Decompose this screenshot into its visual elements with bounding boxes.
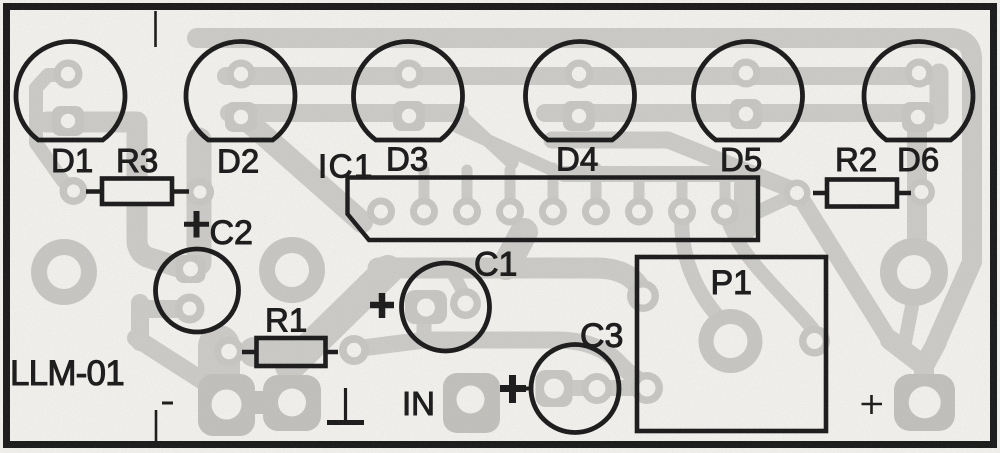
holes C2 — [183, 262, 198, 277]
wire diagonal stubs between D3 and D4 — [457, 112, 553, 170]
wire third bus trace right part — [545, 104, 924, 122]
wire IC1 right end to R2 left pad — [751, 195, 794, 215]
LED D4 — [526, 42, 635, 140]
tick mark top — [154, 11, 157, 47]
wire gray fill left part of R1 body — [254, 337, 300, 367]
holes LED pads — [61, 67, 75, 81]
holes large pads bottom — [212, 390, 242, 420]
wire C2 minus pad to bottom-left pads — [136, 303, 206, 383]
tick mark bottom — [155, 410, 158, 444]
plus sign bottom right — [862, 395, 883, 414]
capacitor C2 — [156, 249, 239, 332]
pad D3 lower square — [393, 101, 425, 131]
wire junction Y into bottom-right pad — [890, 340, 937, 378]
wire C3 plus lead — [526, 387, 533, 391]
potentiometer P1 outline — [637, 257, 826, 431]
wire curve IC1 to P1 right ring — [727, 218, 812, 328]
LED D6 — [864, 42, 973, 140]
wire D1 lower pad trace with elbow behind R3 — [47, 122, 191, 271]
pad C2 minus ring — [175, 294, 205, 324]
pad R3 left ring — [60, 177, 88, 205]
pad D5 lower square — [730, 99, 762, 129]
pad D2 upper ring — [227, 60, 256, 89]
wire curve IC1 to P1 center ring — [682, 216, 727, 326]
via big ring right — [880, 238, 948, 306]
wire C1 plus pad tail to mid trace — [454, 276, 466, 301]
wire third bus trace through LED lower pads — [229, 104, 460, 122]
capacitor C3 — [531, 345, 619, 433]
pad P1 center big ring — [699, 309, 763, 373]
wire right ring tail to junction — [905, 306, 912, 342]
wire diagonal from mid trace through R1 body — [290, 270, 388, 366]
pad D2 lower square — [225, 102, 257, 132]
wire C1 left pad stub down — [417, 318, 432, 337]
pad D1 upper ring — [54, 60, 83, 89]
op-amp IC1 outline — [348, 178, 759, 241]
wire diagonal R2 left pad to bottom right junction — [799, 195, 890, 341]
resistor R3 — [102, 179, 172, 205]
wire D6 lower pad down to big right ring — [907, 119, 927, 243]
holes P1 — [635, 288, 652, 305]
wire second bus trace through LED upper pads — [226, 67, 939, 85]
wire vertical from D2 lower pad to C2 plus pad — [187, 140, 212, 263]
LED D2 — [186, 42, 295, 140]
pad R1 left ring — [214, 337, 244, 367]
holes R1 — [221, 344, 237, 360]
wire D6 internal link band2 to lower pad — [930, 73, 949, 115]
pad P1 lower-left ring — [631, 372, 663, 404]
wire C3 pad row bridge — [552, 380, 646, 396]
pad R1 right ring — [339, 335, 369, 365]
pad P1 right ring — [799, 326, 830, 357]
pad bottom-right plus large — [894, 374, 955, 431]
pad bottom-left minus large — [198, 374, 255, 436]
wire top bus trace — [197, 38, 972, 343]
pad C1 left square — [405, 290, 447, 324]
ground symbol — [344, 388, 347, 421]
wire mid trace from R1 area to P1 upper pad — [378, 268, 645, 295]
pad C2 plus square — [176, 255, 206, 283]
LED D3 — [354, 42, 463, 140]
wire blob around R1 left pad — [198, 346, 240, 382]
wire IC1 pin tails up — [424, 168, 725, 211]
wire stub below IC1 to mid trace — [506, 232, 524, 266]
holes big vias — [47, 255, 81, 289]
plus sign C3 — [500, 375, 526, 403]
plus sign C1 — [370, 293, 394, 318]
capacitor C1 — [402, 263, 490, 351]
pad D4 upper ring — [565, 60, 594, 89]
wire gray right end of IC1 — [734, 185, 756, 230]
holes C3 — [544, 379, 564, 399]
wire big diagonal D2 lower pad to IC1 corner — [251, 124, 362, 222]
wire D1 upper pad hook to R3 left pad — [36, 75, 72, 189]
pads IC1 row of 9 rings — [367, 198, 739, 226]
holes R3 — [67, 185, 80, 198]
pad D4 lower square — [563, 101, 595, 131]
pad C1 right ring — [450, 288, 481, 319]
via big ring mid — [259, 237, 325, 303]
pad C3 left square — [536, 370, 573, 407]
pad D6 upper ring — [905, 59, 934, 88]
LED D5 — [693, 42, 802, 140]
pad IN large — [443, 373, 500, 433]
holes IC1 row — [374, 205, 388, 219]
pad bottom-left second large — [263, 375, 321, 431]
pad D6 lower square — [902, 102, 934, 132]
wire band above IC1 right half — [564, 166, 754, 182]
pad D3 upper ring — [395, 60, 424, 89]
via big ring left — [31, 239, 97, 305]
pad P1 upper-left ring — [627, 280, 659, 312]
wire fourth bus trace to R2 left pad — [552, 140, 798, 192]
pad D5 upper ring — [732, 59, 761, 88]
pad R2 left ring — [784, 180, 811, 207]
pad C3 right ring — [582, 373, 613, 404]
LED D1 — [16, 42, 125, 140]
resistor R1 — [257, 338, 326, 366]
pad bridge between bottom-left pads — [248, 391, 270, 414]
pad R2 right ring — [908, 179, 935, 206]
minus sign bottom left — [162, 402, 173, 405]
holes R2 — [790, 186, 804, 200]
pad D1 lower square — [52, 106, 84, 136]
plus sign C2 — [184, 222, 209, 227]
resistor R2 — [827, 180, 897, 207]
wire lower trace R1 right pad to P1 lower-left pad — [354, 340, 649, 385]
holes C1 — [417, 299, 435, 317]
pad R3 right ring — [186, 178, 214, 206]
